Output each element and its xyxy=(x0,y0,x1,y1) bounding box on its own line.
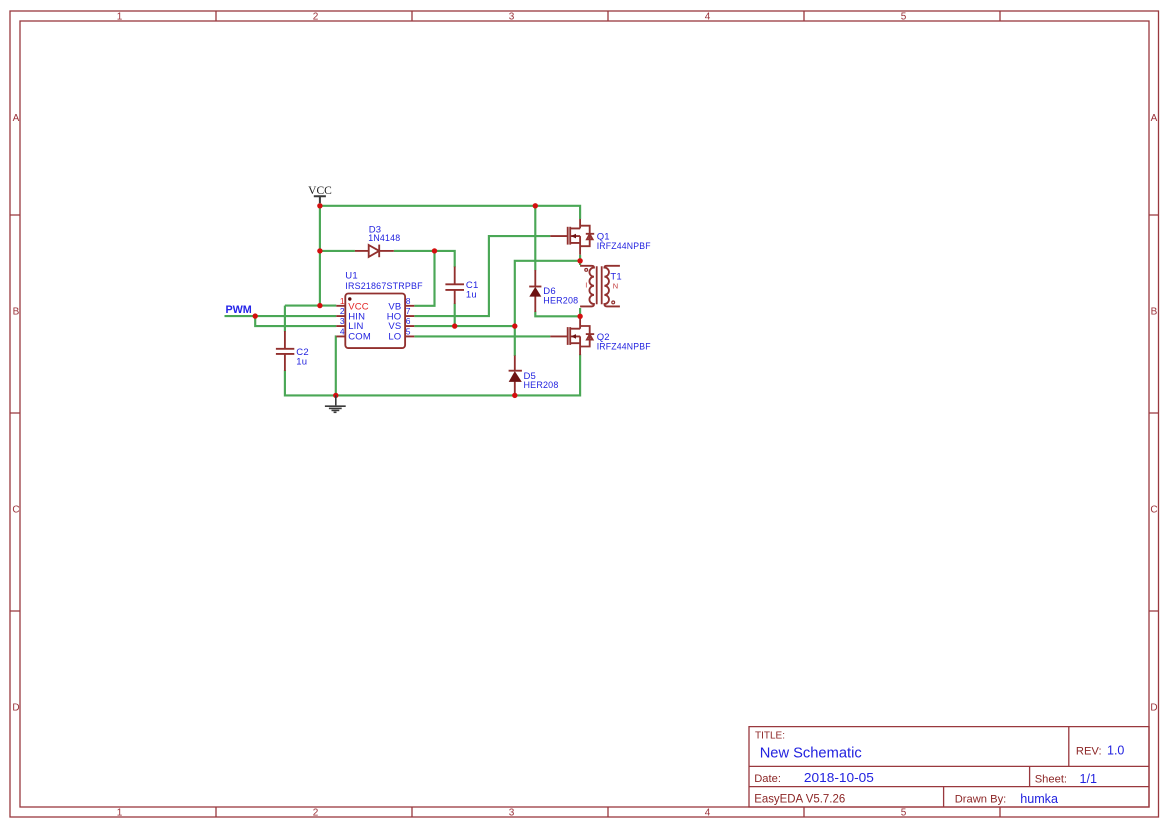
svg-text:7: 7 xyxy=(406,306,411,316)
svg-text:1: 1 xyxy=(117,12,123,23)
svg-text:N: N xyxy=(613,282,618,291)
svg-text:New Schematic: New Schematic xyxy=(760,745,862,762)
svg-text:2018-10-05: 2018-10-05 xyxy=(804,771,874,785)
svg-text:4: 4 xyxy=(705,12,711,23)
svg-text:4: 4 xyxy=(705,807,711,818)
svg-text:1.0: 1.0 xyxy=(1107,743,1124,757)
svg-text:3: 3 xyxy=(509,12,515,23)
svg-text:5: 5 xyxy=(406,326,411,336)
svg-text:LO: LO xyxy=(388,331,401,342)
svg-text:B: B xyxy=(1151,307,1158,318)
svg-text:2: 2 xyxy=(340,306,345,316)
svg-text:1u: 1u xyxy=(296,356,307,367)
svg-text:humka: humka xyxy=(1020,792,1058,806)
svg-text:Drawn By:: Drawn By: xyxy=(955,793,1007,805)
svg-text:COM: COM xyxy=(348,331,371,342)
svg-text:C: C xyxy=(12,505,19,516)
svg-text:IRFZ44NPBF: IRFZ44NPBF xyxy=(597,342,651,353)
svg-text:A: A xyxy=(13,113,20,124)
svg-text:1N4148: 1N4148 xyxy=(368,233,400,244)
svg-text:VCC: VCC xyxy=(308,185,332,197)
svg-text:IRS21867STRPBF: IRS21867STRPBF xyxy=(345,281,423,292)
svg-text:4: 4 xyxy=(340,326,345,336)
svg-text:2: 2 xyxy=(313,807,319,818)
svg-text:5: 5 xyxy=(901,807,907,818)
svg-text:HER208: HER208 xyxy=(543,296,578,307)
svg-text:VCC: VCC xyxy=(348,302,369,313)
svg-text:U1: U1 xyxy=(345,270,358,281)
svg-text:1u: 1u xyxy=(466,290,477,301)
svg-text:8: 8 xyxy=(406,296,411,306)
svg-text:REV:: REV: xyxy=(1076,745,1102,757)
svg-text:1/1: 1/1 xyxy=(1080,772,1098,786)
svg-text:6: 6 xyxy=(406,316,411,326)
svg-text:TITLE:: TITLE: xyxy=(755,730,785,741)
svg-text:IRFZ44NPBF: IRFZ44NPBF xyxy=(597,241,651,252)
svg-text:EasyEDA V5.7.26: EasyEDA V5.7.26 xyxy=(754,792,845,806)
svg-text:2: 2 xyxy=(313,12,319,23)
svg-text:3: 3 xyxy=(340,316,345,326)
svg-text:B: B xyxy=(13,307,20,318)
svg-text:D: D xyxy=(12,703,19,714)
svg-text:Date:: Date: xyxy=(754,773,781,785)
svg-text:I: I xyxy=(585,281,587,290)
svg-text:3: 3 xyxy=(509,807,515,818)
svg-text:Sheet:: Sheet: xyxy=(1035,774,1067,786)
svg-text:C: C xyxy=(1150,505,1157,516)
svg-text:D: D xyxy=(1150,703,1157,714)
svg-text:A: A xyxy=(1151,113,1158,124)
svg-text:5: 5 xyxy=(901,12,907,23)
svg-text:PWM: PWM xyxy=(226,304,252,316)
svg-text:HER208: HER208 xyxy=(524,380,559,391)
svg-text:1: 1 xyxy=(117,807,123,818)
svg-text:1: 1 xyxy=(340,296,345,306)
